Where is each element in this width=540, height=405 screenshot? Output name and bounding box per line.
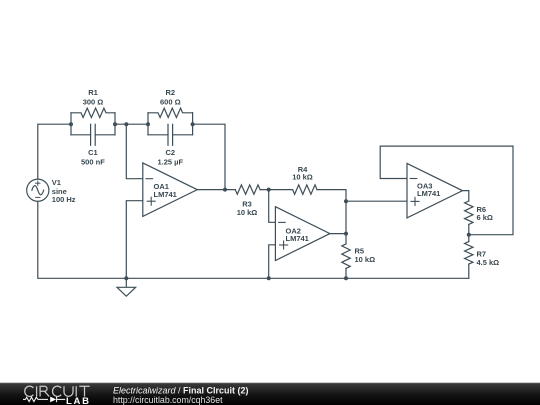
node R5 bottom bbox=[344, 276, 348, 280]
capacitor C1 bbox=[71, 124, 115, 145]
resistor R5 bbox=[342, 244, 350, 269]
node OA2 output bbox=[344, 232, 348, 236]
wire bbox=[38, 201, 127, 278]
svg-text:R1: R1 bbox=[88, 88, 98, 97]
logo squiggle resistor+diode bbox=[23, 397, 65, 403]
svg-text:10 kΩ: 10 kΩ bbox=[355, 255, 376, 264]
wire bbox=[193, 124, 225, 189]
wire bbox=[38, 124, 71, 179]
wire OA1 non-inverting input bbox=[126, 201, 143, 279]
node R6/R7 bbox=[467, 233, 471, 237]
svg-text:http://circuitlab.com/cqh36et: http://circuitlab.com/cqh36et bbox=[113, 395, 223, 405]
wire bbox=[115, 123, 148, 125]
svg-text:600 Ω: 600 Ω bbox=[160, 97, 181, 106]
op-amp OA2 bbox=[275, 207, 330, 261]
capacitor C2 bbox=[148, 124, 193, 145]
svg-text:6 kΩ: 6 kΩ bbox=[477, 213, 493, 222]
svg-text:LM741: LM741 bbox=[286, 234, 309, 243]
svg-text:C2: C2 bbox=[166, 148, 176, 157]
op-amp OA1 bbox=[143, 163, 198, 217]
voltage source V1 bbox=[27, 179, 49, 201]
ground bbox=[117, 278, 136, 296]
wire bbox=[468, 224, 470, 241]
wire bbox=[260, 189, 293, 191]
node OA2 plus ground bbox=[267, 276, 271, 280]
resistor R2 bbox=[148, 108, 193, 135]
resistor R7 bbox=[465, 242, 473, 265]
svg-text:10 kΩ: 10 kΩ bbox=[237, 208, 258, 217]
svg-text:4.5 kΩ: 4.5 kΩ bbox=[477, 258, 500, 267]
svg-text:V1: V1 bbox=[52, 178, 61, 187]
wire OA3 output bbox=[463, 191, 469, 201]
svg-text:R2: R2 bbox=[166, 88, 176, 97]
wire bbox=[317, 190, 346, 244]
footer divider bbox=[0, 381, 540, 384]
node ground bbox=[124, 276, 128, 280]
wire OA1 output bbox=[197, 189, 235, 191]
op-amp OA3 bbox=[407, 163, 463, 218]
wire OA3 inverting feedback loop bbox=[380, 146, 513, 235]
node R2 right bbox=[191, 122, 195, 126]
logo CIRCUIT letters bbox=[25, 386, 90, 396]
node OA3 plus bbox=[344, 199, 348, 203]
resistor R1 bbox=[71, 108, 115, 135]
node R1 left bbox=[69, 122, 73, 126]
svg-text:300 Ω: 300 Ω bbox=[83, 97, 104, 106]
node R2 left bbox=[146, 122, 150, 126]
svg-text:500 nF: 500 nF bbox=[81, 157, 105, 166]
wire OA1 inverting input bbox=[126, 124, 143, 179]
svg-text:LM741: LM741 bbox=[154, 190, 177, 199]
node R1 right bbox=[113, 122, 117, 126]
footer bar bbox=[0, 383, 540, 405]
node OA1 inv tap bbox=[124, 122, 128, 126]
resistor R4 bbox=[293, 185, 317, 194]
wire OA2 output bbox=[330, 233, 346, 235]
node R3/R4 bbox=[267, 188, 271, 192]
svg-text:10 kΩ: 10 kΩ bbox=[292, 173, 313, 182]
svg-text:100 Hz: 100 Hz bbox=[52, 195, 76, 204]
svg-text:LAB: LAB bbox=[66, 396, 91, 405]
wire bbox=[345, 268, 347, 278]
svg-text:LM741: LM741 bbox=[417, 189, 440, 198]
svg-text:1.25 µF: 1.25 µF bbox=[158, 157, 184, 166]
node OA1 output bbox=[223, 188, 227, 192]
svg-text:C1: C1 bbox=[88, 148, 98, 157]
wire bottom rail bbox=[126, 277, 469, 279]
wire bbox=[468, 264, 470, 278]
resistor R3 bbox=[235, 185, 260, 194]
wire OA2 non-inverting input bbox=[269, 245, 276, 278]
wire OA2 inverting input bbox=[269, 190, 276, 223]
resistor R6 bbox=[465, 201, 473, 224]
wire OA3 non-inverting input bbox=[346, 200, 407, 202]
